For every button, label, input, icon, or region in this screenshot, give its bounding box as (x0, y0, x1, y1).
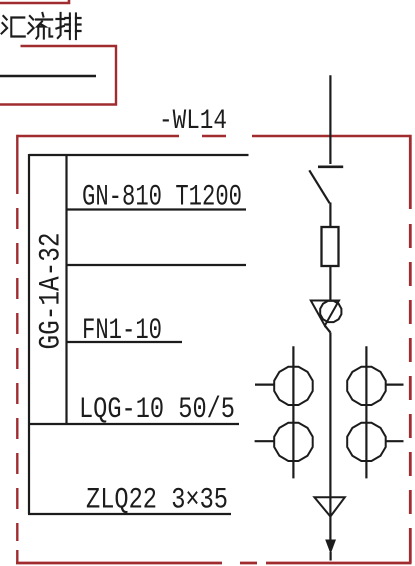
svg-text:GG-1A-32: GG-1A-32 (35, 233, 68, 350)
svg-text:-WL14: -WL14 (159, 106, 227, 137)
svg-text:FN1-10: FN1-10 (82, 314, 162, 347)
svg-text:LQG-10 50/5: LQG-10 50/5 (79, 393, 235, 426)
svg-text:ZLQ22 3×35: ZLQ22 3×35 (86, 484, 228, 517)
svg-text:GN-810 T1200: GN-810 T1200 (82, 181, 242, 214)
